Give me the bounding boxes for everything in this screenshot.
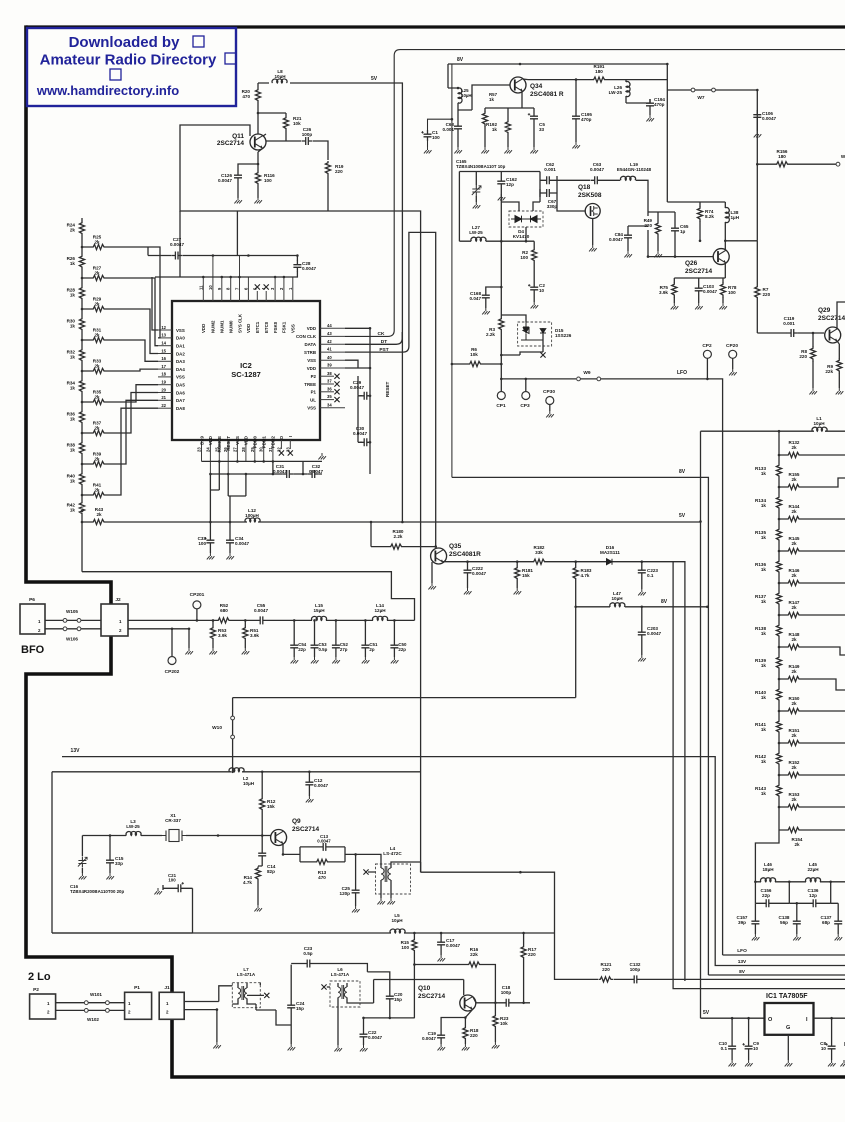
transistor Q29 (825, 327, 841, 343)
svg-text:1k: 1k (70, 448, 76, 453)
junction L4 line (519, 871, 522, 874)
label C63 (590, 162, 604, 172)
svg-text:0.001: 0.001 (783, 321, 795, 326)
wire: LFO bottom row (723, 954, 845, 956)
svg-text:2k: 2k (94, 487, 100, 492)
svg-text:220: 220 (470, 1033, 478, 1038)
capacitor C12 (305, 778, 313, 789)
svg-text:2SC2714: 2SC2714 (292, 826, 319, 833)
wire: R41 to IC2 pin (82, 408, 158, 495)
wire: mixer feed line y=933 (52, 932, 555, 934)
no-connect X at L6 (321, 984, 326, 989)
resistor R141 (776, 720, 781, 735)
capacitor C31 (283, 470, 294, 478)
label L3 (126, 819, 140, 829)
svg-text:10k: 10k (500, 1021, 508, 1026)
net 13V left (71, 748, 81, 754)
resistor R3 (499, 317, 504, 332)
svg-text:CP20: CP20 (726, 343, 738, 349)
junction J1 return (216, 1008, 219, 1011)
P6 pin numbers (38, 619, 41, 633)
wire: CP2 stub (706, 358, 708, 379)
resistor R192 (505, 120, 510, 135)
label C18 (501, 985, 512, 995)
capacitor C26 (302, 137, 313, 145)
svg-text:VSS: VSS (235, 436, 240, 445)
wire: 8V bottom row (708, 974, 845, 976)
svg-text:0.0047: 0.0047 (235, 541, 249, 546)
resistor R51 (243, 626, 248, 641)
wire: C13/R13 parallel (300, 847, 356, 862)
wire: J1 pin1 to L7 (184, 986, 232, 1002)
svg-text:2k: 2k (791, 477, 797, 482)
label R136 (755, 562, 766, 572)
svg-text:P1: P1 (311, 390, 317, 395)
resistor R133 (776, 464, 781, 479)
svg-text:1k: 1k (489, 97, 494, 102)
junction CP202 (171, 628, 191, 631)
svg-text:41: 41 (327, 347, 332, 352)
svg-text:15µH: 15µH (313, 608, 325, 613)
svg-text:0.0047: 0.0047 (170, 242, 184, 247)
terminal CP3 (522, 392, 530, 400)
label L2 (243, 776, 255, 786)
label R183 (581, 568, 592, 578)
inductor L8 (272, 79, 287, 83)
svg-text:10µH: 10µH (461, 93, 472, 98)
label R191 (594, 64, 605, 74)
svg-text:42: 42 (327, 339, 332, 344)
junction L47 line (574, 606, 708, 609)
connector W105 b (77, 619, 81, 623)
label R39 (93, 451, 102, 461)
resistor R150 (787, 708, 802, 713)
wire: Q34 base feed (458, 85, 510, 110)
svg-text:CP201: CP201 (190, 592, 205, 598)
label R20 (242, 89, 251, 99)
resistor R152 (787, 772, 802, 777)
junction R3 bottom (500, 354, 503, 366)
ground under C51 (362, 657, 370, 663)
svg-text:19: 19 (161, 380, 166, 385)
wire: R150 out (779, 710, 826, 712)
svg-text:10k: 10k (470, 352, 478, 357)
svg-text:0.0047: 0.0047 (218, 178, 232, 183)
label R134 (755, 498, 766, 508)
ground under R8 (809, 388, 817, 394)
label R35 (93, 389, 102, 399)
wire: VDD drops to 5V line (210, 461, 246, 522)
junctions right ladder (778, 454, 781, 809)
resistor R134 (776, 496, 781, 511)
label Q18 (578, 184, 602, 199)
junction base line (647, 255, 677, 258)
label L8 (274, 69, 286, 79)
svg-text:8.2k: 8.2k (705, 214, 714, 219)
ground under C10 (729, 1060, 737, 1066)
svg-text:10k: 10k (293, 121, 301, 126)
svg-text:100p: 100p (501, 990, 512, 995)
wire: C21 loop (163, 885, 193, 933)
resistor R30 (79, 317, 84, 332)
ground under R53 (209, 648, 217, 654)
capacitor C34 (226, 536, 234, 547)
connector W105 a (63, 619, 67, 623)
resistor R15 (412, 938, 417, 953)
net 8V at L47 (661, 599, 668, 605)
svg-text:0.1: 0.1 (647, 573, 654, 578)
capacitor C136 (809, 899, 820, 907)
capacitor C21 (pol) (174, 882, 185, 892)
capacitor C13 (319, 843, 330, 851)
capacitor C223 (638, 566, 646, 577)
wire: J1 pin2 return (184, 1010, 217, 1042)
label L26 (609, 85, 623, 95)
wire: C126 branch (238, 164, 258, 198)
label R36 (67, 412, 76, 422)
resistor R27 (92, 275, 107, 280)
svg-text:DA3: DA3 (176, 359, 185, 364)
svg-text:22p: 22p (398, 647, 406, 652)
svg-text:2SC2714: 2SC2714 (217, 140, 244, 147)
label R32 (67, 350, 76, 360)
net 5V at IC1 (703, 1010, 710, 1016)
junctions bottom buses (209, 460, 304, 475)
wire: pin40 pin39 nets (345, 360, 370, 368)
wire: C136 bridge (789, 882, 830, 904)
label L19 (617, 162, 652, 172)
label C52 (340, 642, 349, 652)
wire: C51 branch (364, 620, 366, 657)
ground under C5 (530, 147, 538, 153)
svg-text:W10: W10 (212, 725, 222, 731)
resistor R144 (787, 516, 802, 521)
resistor R53 (210, 626, 215, 641)
label R180 (393, 529, 404, 539)
label L5 (391, 913, 403, 923)
wire: L7 pins (232, 983, 264, 1004)
svg-text:2k: 2k (94, 239, 100, 244)
wire: Q9 emitter chain (283, 844, 300, 855)
wire: C53 branch (314, 620, 316, 657)
transistor Q10 (460, 995, 476, 1011)
resistor R23 (493, 1014, 498, 1029)
svg-text:VDD: VDD (307, 326, 316, 331)
ground under trimmer (473, 202, 481, 208)
label R12 (267, 799, 276, 809)
label P1 (134, 985, 140, 991)
svg-text:22k: 22k (825, 369, 833, 374)
junction L27 node (500, 240, 527, 243)
label C65 (680, 224, 689, 234)
wire: Q26 emitter bus (674, 264, 725, 304)
capacitor C30 (360, 438, 371, 446)
label CP1 (496, 403, 506, 409)
label R145 (789, 536, 800, 546)
svg-text:12: 12 (161, 325, 166, 330)
label L7 (237, 967, 256, 977)
svg-text:11: 11 (198, 285, 203, 290)
wire: R53 branch (212, 620, 214, 648)
connector W10 b (231, 735, 235, 739)
ground under C22 (360, 1045, 368, 1051)
IC U-IC2 SC-1287 body (172, 301, 320, 440)
ground BFO return (185, 648, 193, 654)
label L47 (611, 591, 623, 601)
svg-text:3.9k: 3.9k (250, 633, 259, 638)
capacitor C63 (591, 176, 602, 184)
wire: bus risers to Q11 loop line (148, 211, 237, 330)
wire: R2 to C2 (533, 263, 535, 302)
label R41 (93, 482, 102, 492)
resistor R12 (260, 797, 265, 812)
label R38 (67, 443, 76, 453)
svg-text:CP1: CP1 (496, 403, 506, 409)
wire: Q35 collector row (443, 562, 685, 981)
wire: R147 out (779, 614, 826, 616)
svg-text:W101: W101 (90, 992, 102, 997)
wire: C26 to R19 (313, 141, 328, 160)
svg-text:18µH: 18µH (762, 867, 774, 872)
wire: R151 out (779, 742, 826, 744)
svg-text:0.001: 0.001 (443, 127, 455, 132)
svg-text:W: W (841, 154, 845, 159)
ground under L4 right (387, 898, 395, 904)
resistor R9 (837, 359, 842, 374)
svg-text:12p: 12p (506, 182, 514, 187)
svg-text:8V: 8V (679, 469, 686, 475)
capacitor C28 (293, 261, 301, 272)
diode D16 MA2S111 (606, 559, 613, 565)
label L45 (807, 862, 819, 872)
wire: 8V rail (448, 64, 667, 88)
junction Q26 collector node (699, 240, 727, 243)
junction C195 (575, 78, 578, 81)
capacitor C132 (630, 975, 641, 983)
svg-text:TREE: TREE (304, 382, 316, 387)
label R29 (93, 296, 102, 306)
wire: C34 branch (229, 522, 231, 553)
svg-text:21: 21 (161, 395, 166, 400)
trimmer capacitor C16 (78, 857, 87, 868)
label D16 (600, 545, 620, 555)
label R152 (789, 760, 800, 770)
svg-text:22: 22 (161, 403, 166, 408)
wire: R183 branch (575, 562, 577, 607)
svg-text:2k: 2k (791, 509, 797, 514)
svg-text:LW-25: LW-25 (609, 90, 623, 95)
label W10 (212, 725, 222, 731)
capacitor C33 (pol) (204, 536, 214, 547)
svg-text:33p: 33p (115, 861, 123, 866)
svg-text:DA9: DA9 (199, 435, 204, 444)
resistor R34 (79, 379, 84, 394)
junction ladder top (778, 430, 781, 433)
transformer L6 LS-471A (dashed) (330, 981, 360, 1007)
wire: C16 trimmer branch (81, 836, 83, 874)
label C14 (267, 864, 276, 874)
capacitor C65 (671, 224, 679, 235)
label R51 (250, 628, 259, 638)
label R144 (789, 504, 800, 514)
ground under R23 (492, 1042, 500, 1048)
resistor R180 (389, 544, 404, 549)
capacitor C19 (437, 1031, 445, 1042)
wire: D4 connections (501, 189, 540, 241)
wire: R15 lower riser (413, 960, 415, 1018)
capacitor C84 (624, 231, 632, 242)
label R42 (67, 503, 76, 513)
svg-text:10µH: 10µH (813, 421, 825, 426)
svg-text:LW-25: LW-25 (126, 824, 140, 829)
resistor R40 (79, 472, 84, 487)
label C51 (369, 642, 378, 652)
svg-text:Q35: Q35 (449, 543, 462, 550)
ground under C137 (835, 934, 843, 940)
svg-text:15p: 15p (394, 997, 402, 1002)
resistor R2 (532, 248, 537, 263)
resistor R153 (787, 804, 802, 809)
label C30 (353, 426, 367, 436)
svg-text:PDM2: PDM2 (271, 435, 276, 448)
svg-text:Q18: Q18 (578, 184, 591, 191)
wire: L1 10uH line (701, 431, 845, 1018)
label C126 (218, 173, 233, 183)
wire: C222 branch (467, 562, 469, 588)
net RESET (rotated) (0, 0, 1, 1)
IC2 left pin stubs (158, 330, 172, 408)
svg-text:MA2S111: MA2S111 (600, 550, 620, 555)
connector W106 b (77, 627, 81, 631)
inductor L27 (471, 237, 486, 241)
label Q34 (530, 83, 564, 98)
capacitor C23 (303, 960, 314, 968)
wire: CP3 stub (525, 379, 527, 391)
wire: C33 branch (209, 522, 211, 553)
label C19 (422, 1031, 436, 1041)
ground under C106 (754, 131, 762, 137)
svg-text:470: 470 (242, 94, 250, 99)
trimmer capacitor C165 (472, 185, 481, 196)
inductor L47 (610, 603, 625, 607)
ground under R9 (836, 388, 844, 394)
svg-text:DA4: DA4 (176, 367, 185, 372)
junctions top buses (202, 254, 299, 278)
svg-text:IC1 TA7805F: IC1 TA7805F (766, 993, 808, 1000)
resistor R35 (92, 399, 107, 404)
label C28 (302, 261, 316, 271)
label P2 (33, 987, 39, 993)
label R21 (293, 116, 302, 126)
capacitor C67 (543, 189, 554, 197)
svg-text:3.9k: 3.9k (659, 290, 668, 295)
wire: R29 to IC2 pin (82, 309, 158, 354)
label R148 (789, 632, 800, 642)
capacitor C8 (pol) (825, 1042, 835, 1053)
J1 pin numbers (166, 1001, 169, 1015)
resistor R36 (79, 410, 84, 425)
svg-text:2k: 2k (94, 394, 100, 399)
resistor R57 (482, 112, 487, 127)
label R33 (93, 358, 102, 368)
label C84 (609, 232, 623, 242)
connector P6 body (20, 604, 45, 634)
wire: R21 branch (258, 113, 286, 141)
resistor R74 (697, 207, 702, 222)
label R25 (93, 234, 102, 244)
capacitor C32 (308, 470, 319, 478)
label C2 (539, 283, 545, 293)
wire: P2-P1 link 1 (56, 1002, 125, 1004)
label C62 (544, 162, 556, 172)
wire: BFO chain (128, 619, 415, 621)
svg-text:220: 220 (335, 169, 343, 174)
label CP3 (520, 403, 530, 409)
label Q11 (217, 133, 244, 147)
ground under C16 (79, 873, 87, 879)
wire: ladder bottom to long 5V/L12 line (82, 521, 202, 523)
resistor R16 (467, 962, 482, 967)
label R133 (755, 466, 766, 476)
svg-text:IC2: IC2 (240, 361, 252, 370)
wire: C31 C32 bridges (273, 461, 303, 474)
svg-text:2SC2714: 2SC2714 (818, 315, 845, 322)
unit boundary frame (thick) (26, 25, 845, 28)
label W7 (697, 95, 705, 101)
wire: R154 out (779, 829, 826, 831)
connector W9 a (577, 377, 581, 381)
svg-text:2k: 2k (791, 541, 797, 546)
svg-text:1k: 1k (761, 759, 767, 764)
svg-text:1k: 1k (761, 471, 767, 476)
capacitor C20 (386, 992, 394, 1003)
wire: R8 branch (812, 333, 814, 388)
svg-text:DATA: DATA (304, 342, 316, 347)
net 8V top (457, 57, 464, 63)
svg-text:J1: J1 (164, 985, 170, 991)
wire: CP201 stub (196, 609, 198, 621)
svg-text:LW-25: LW-25 (469, 230, 483, 235)
svg-text:W106: W106 (66, 637, 78, 642)
capacitor C54 (290, 641, 298, 652)
ground under C19 (438, 1044, 446, 1050)
svg-text:0.0047: 0.0047 (762, 116, 776, 121)
svg-text:SC-1287: SC-1287 (231, 370, 261, 379)
wire: Q26 base line (648, 243, 713, 257)
junction emitter node (257, 163, 260, 166)
resistor R25 (92, 244, 107, 249)
svg-text:1k: 1k (70, 293, 76, 298)
ground under C17 (438, 955, 446, 961)
capacitor C194 (646, 99, 654, 110)
wire: CP202 stub (171, 629, 173, 656)
label L46 (762, 862, 774, 872)
label R57 (489, 92, 498, 102)
net PST label (379, 347, 388, 353)
svg-text:2k: 2k (791, 445, 797, 450)
wire: R35 to IC2 pin (82, 385, 158, 402)
svg-text:100: 100 (520, 255, 528, 260)
inductor L46 (761, 878, 776, 882)
label C34 (235, 536, 249, 546)
capacitor C14 (258, 849, 266, 860)
svg-text:14: 14 (161, 341, 166, 346)
ground under C162 (498, 194, 506, 200)
label R37 (93, 420, 102, 430)
resistor R154 (787, 827, 802, 832)
svg-text:NUM0: NUM0 (229, 320, 234, 333)
wire: Q11 collector to C26 line (263, 134, 301, 141)
